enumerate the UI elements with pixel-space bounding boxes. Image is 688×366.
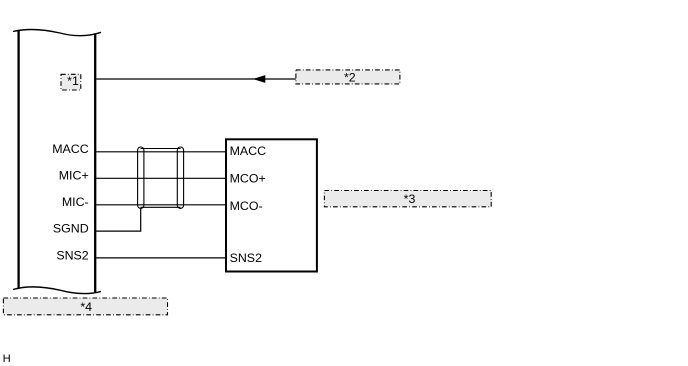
wire harness band left edge — [17, 31, 19, 288]
wire from harness to note *2 — [96, 78, 296, 80]
wire MIC- / MCO- — [95, 204, 226, 206]
wire MIC+ / MCO+ — [95, 177, 226, 179]
shield bottom line — [141, 206, 181, 208]
wire harness band right edge — [94, 33, 96, 292]
svg-text:MACC: MACC — [52, 142, 89, 156]
svg-text:*2: *2 — [344, 70, 356, 84]
svg-text:H: H — [3, 353, 11, 365]
note *4 — [3, 298, 167, 315]
note *2 — [296, 70, 400, 84]
wire SGND to shield — [95, 208, 141, 231]
svg-text:MIC+: MIC+ — [59, 168, 89, 182]
shield right ferrule — [177, 147, 183, 208]
svg-text:*1: *1 — [67, 74, 79, 88]
svg-text:MACC: MACC — [230, 144, 267, 158]
note *3 — [324, 191, 491, 207]
microphone unit box — [226, 139, 317, 271]
svg-text:MIC-: MIC- — [62, 195, 89, 209]
wire harness band top wavy break — [13, 30, 101, 36]
svg-text:*4: *4 — [80, 300, 92, 314]
svg-text:MCO+: MCO+ — [230, 172, 266, 186]
wire SNS2 — [95, 257, 226, 259]
svg-text:*3: *3 — [404, 192, 416, 206]
wire harness band bottom wavy break — [13, 287, 101, 294]
note *1 — [61, 74, 81, 90]
svg-text:MCO-: MCO- — [230, 199, 263, 213]
shield top line — [141, 148, 181, 150]
svg-text:SGND: SGND — [53, 222, 89, 236]
arrowhead pointing left — [253, 75, 265, 83]
svg-text:SNS2: SNS2 — [56, 249, 88, 263]
svg-text:SNS2: SNS2 — [230, 251, 262, 265]
wire MACC — [95, 151, 226, 153]
shield left ferrule — [138, 147, 144, 208]
